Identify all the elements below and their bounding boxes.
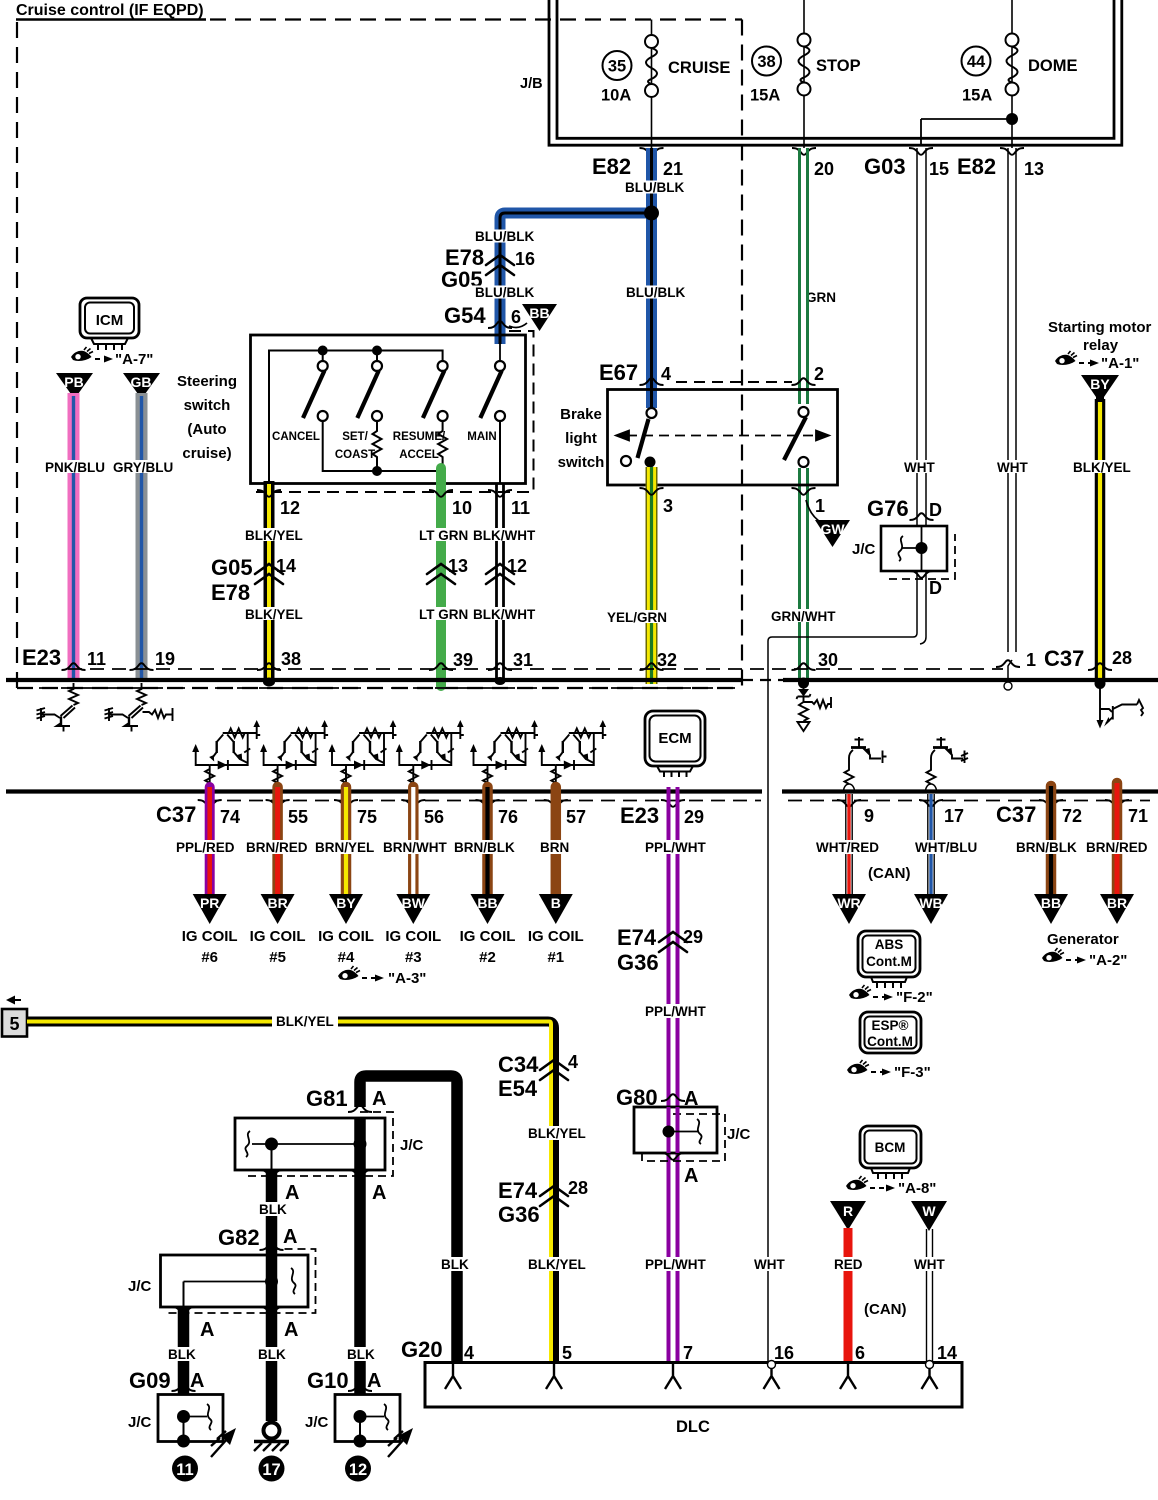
svg-text:#6: #6 (201, 949, 218, 966)
svg-text:BRN/RED: BRN/RED (1086, 840, 1148, 855)
svg-text:J/C: J/C (305, 1414, 329, 1431)
wire labels row2 (242, 607, 302, 620)
label BLK between G81 G82 (256, 1202, 287, 1216)
svg-text:E67: E67 (599, 360, 638, 385)
MAIN switch (495, 361, 505, 371)
section dashed border bottom (17, 687, 742, 689)
pin 72 bump (1039, 800, 1063, 807)
svg-text:WHT: WHT (914, 1257, 945, 1272)
svg-text:G81: G81 (306, 1086, 348, 1111)
RESUME/ACCEL resistor (438, 421, 447, 471)
svg-text:11: 11 (87, 649, 106, 669)
svg-text:J/C: J/C (128, 1278, 152, 1295)
G82 top pin A bump (260, 1243, 284, 1250)
G82 bottom pin A bumps (172, 1307, 196, 1314)
SET/COAST switch (372, 361, 382, 371)
svg-text:BW: BW (402, 895, 426, 911)
svg-text:5: 5 (562, 1343, 572, 1363)
pin 10 bump (429, 490, 453, 497)
G80 wire through box (669, 1107, 678, 1153)
svg-text:BLU/BLK: BLU/BLK (625, 180, 684, 195)
svg-text:"A-2": "A-2" (1089, 952, 1127, 969)
brake switch right arm (784, 417, 806, 460)
label BLU/BLK right branch (623, 286, 683, 299)
svg-text:"F-2": "F-2" (896, 989, 933, 1006)
svg-text:75: 75 (357, 807, 377, 827)
pin 19 bump (130, 663, 154, 670)
connector E74/G36 pin 28 (540, 1186, 568, 1206)
connector G05/E78 pin 14 (255, 564, 283, 584)
pin 31 bump (488, 663, 512, 670)
svg-text:Cruise control (IF EQPD): Cruise control (IF EQPD) (16, 2, 204, 19)
G80 box (634, 1107, 717, 1153)
connector C34/E54 pin 4 (540, 1060, 568, 1080)
svg-text:IG COIL: IG COIL (182, 928, 238, 945)
svg-text:WHT: WHT (904, 460, 935, 475)
terminal BB triangle (471, 894, 505, 924)
svg-text:Steering: Steering (177, 373, 237, 390)
svg-text:CRUISE: CRUISE (668, 59, 730, 77)
svg-text:32: 32 (657, 650, 677, 670)
svg-text:Starting motor: Starting motor (1048, 319, 1151, 336)
wire WHT/BLU CAN pin 17 (928, 794, 934, 897)
svg-text:G82: G82 (218, 1225, 260, 1250)
svg-text:"F-3": "F-3" (894, 1064, 931, 1081)
wire BLK/YEL starting motor relay to C37-28 (1095, 399, 1106, 682)
terminal GW triangle (806, 500, 822, 523)
wire BRN/RED pin 71 (1112, 783, 1123, 896)
svg-text:E78: E78 (211, 580, 250, 605)
connector E74/G36 pin 29 (659, 932, 687, 952)
svg-text:BR: BR (267, 895, 287, 911)
G76 dashed outline (889, 534, 955, 579)
terminal GB triangle (123, 373, 160, 399)
steering switch box (251, 335, 526, 484)
svg-text:RESUME/: RESUME/ (393, 431, 446, 443)
ECM lower connector rail solid (6, 789, 762, 793)
bus junction dots (318, 346, 328, 356)
wire PPL/RED pin 74 (205, 787, 215, 896)
svg-text:21: 21 (663, 159, 683, 179)
svg-text:MAIN: MAIN (467, 431, 496, 443)
svg-text:4: 4 (568, 1052, 578, 1072)
svg-text:D: D (929, 500, 942, 520)
svg-text:#4: #4 (338, 949, 355, 966)
svg-text:ICM: ICM (96, 312, 124, 329)
svg-text:16: 16 (774, 1343, 794, 1363)
svg-text:"A-1": "A-1" (1101, 355, 1139, 372)
wire BRN/BLK pin 76 (482, 787, 493, 896)
wire WHT/RED CAN pin 9 (846, 794, 852, 897)
svg-text:G03: G03 (864, 154, 906, 179)
label BLK G20-4 wire (438, 1257, 469, 1271)
label BLK/YEL vertical (525, 1126, 585, 1140)
ground number 12 (345, 1456, 371, 1482)
svg-text:4: 4 (464, 1343, 474, 1363)
J/B junction block box (double line) (549, 0, 1122, 145)
label PPL/WHT (642, 840, 705, 854)
terminal BW triangle (396, 894, 430, 924)
pin 11 bump (488, 490, 512, 497)
svg-text:6: 6 (511, 307, 521, 327)
svg-text:A: A (284, 1319, 298, 1341)
label PNK/BLU (42, 460, 104, 473)
svg-text:"A-7": "A-7" (115, 351, 153, 368)
connector E67 pin 4 bump (640, 378, 664, 385)
DLC box (425, 1363, 962, 1408)
svg-text:G09: G09 (129, 1368, 171, 1393)
wire WHT pin 14 (double line) (927, 1229, 933, 1362)
svg-text:BRN/WHT: BRN/WHT (383, 840, 447, 855)
svg-text:PPL/WHT: PPL/WHT (645, 840, 706, 855)
pin 71 bump (1105, 800, 1129, 807)
ECM module icon (645, 711, 705, 777)
terminal B triangle (539, 894, 573, 924)
svg-text:38: 38 (757, 53, 775, 71)
wire GRY/BLU (136, 393, 148, 681)
svg-text:A: A (372, 1182, 386, 1204)
CANCEL switch (318, 361, 328, 371)
G10 internal (354, 1410, 367, 1423)
svg-text:BLK: BLK (168, 1347, 196, 1362)
svg-text:3: 3 (663, 496, 673, 516)
eye reference F-3 (847, 1060, 869, 1074)
svg-text:ACCEL: ACCEL (399, 449, 439, 461)
svg-text:C34: C34 (498, 1052, 539, 1077)
svg-text:76: 76 (498, 807, 518, 827)
svg-text:BB: BB (1041, 895, 1061, 911)
brake switch left unused contact (621, 456, 631, 466)
wire PPL/WHT from E23-29 (669, 787, 678, 1362)
svg-text:relay: relay (1083, 337, 1119, 354)
labels WHT/RED WHT/BLU (813, 840, 879, 854)
pin 74 bump (198, 800, 222, 807)
pin 76 bump (476, 800, 500, 807)
wire LT GRN pin 10 (436, 468, 446, 686)
svg-text:BLK/YEL: BLK/YEL (245, 607, 303, 622)
svg-text:GW: GW (820, 521, 845, 537)
svg-text:BLK/YEL: BLK/YEL (1073, 460, 1131, 475)
svg-text:35: 35 (608, 58, 626, 76)
svg-text:39: 39 (453, 650, 473, 670)
circuit number 5 box (2, 1009, 27, 1037)
CAN driver circuit pin 9 (844, 737, 887, 792)
connector G03 pin 15 bump (909, 148, 933, 155)
pin 75 bump (334, 800, 358, 807)
svg-text:G54: G54 (444, 303, 486, 328)
G81 top pin A bump (348, 1105, 372, 1112)
svg-text:BRN/BLK: BRN/BLK (1016, 840, 1077, 855)
eye reference F-2 (849, 985, 871, 999)
svg-text:DOME: DOME (1028, 57, 1078, 75)
svg-text:12: 12 (349, 1461, 367, 1479)
G09 internal (177, 1410, 190, 1423)
terminal PR triangle (193, 894, 227, 924)
svg-text:20: 20 (814, 159, 834, 179)
wire GRN from fuse 38 to brake light switch (800, 148, 808, 682)
svg-text:28: 28 (568, 1178, 588, 1198)
upper rail dashed line (68, 668, 1003, 670)
svg-text:BB: BB (529, 305, 549, 321)
svg-text:16: 16 (515, 249, 535, 269)
pin 1 bump (996, 660, 1020, 667)
svg-text:BB: BB (477, 895, 497, 911)
svg-text:12: 12 (507, 556, 527, 576)
svg-text:15A: 15A (962, 87, 992, 105)
G81 box (235, 1118, 385, 1170)
G80 dashed outline (642, 1114, 725, 1161)
brake light switch box (608, 390, 838, 486)
terminal BY triangle (1081, 375, 1119, 401)
G09 box (158, 1395, 223, 1442)
label BLU/BLK under E82-21 (622, 181, 682, 194)
svg-text:G36: G36 (617, 950, 659, 975)
brake switch right contact top (799, 407, 809, 417)
svg-text:G05: G05 (211, 555, 253, 580)
svg-text:J/C: J/C (400, 1137, 424, 1154)
svg-text:C37: C37 (156, 802, 196, 827)
G76 top pin D bump (910, 513, 934, 520)
E67 dashed connector line (676, 381, 792, 383)
wire PNK/BLU (68, 393, 80, 681)
label YEL/GRN (604, 610, 667, 623)
terminal WR triangle (832, 894, 866, 924)
svg-text:LT GRN: LT GRN (419, 607, 468, 622)
pin 56 bump (401, 800, 425, 807)
terminal WB triangle (914, 894, 948, 924)
fuse 44 DOME wire (1011, 0, 1013, 148)
label WHT left (901, 460, 937, 473)
svg-text:Cont.M: Cont.M (867, 1034, 913, 1049)
svg-text:BRN/RED: BRN/RED (246, 840, 308, 855)
svg-text:light: light (565, 430, 597, 447)
svg-text:CANCEL: CANCEL (272, 431, 320, 443)
svg-text:IG COIL: IG COIL (528, 928, 584, 945)
svg-text:A: A (200, 1319, 214, 1341)
svg-text:BLK: BLK (258, 1347, 286, 1362)
labels BLK row (165, 1347, 196, 1361)
wire BRN pin 57 (551, 787, 562, 896)
connector E82 pin 13 bump (1000, 148, 1024, 155)
IG coil driver circuits x6 (192, 720, 606, 786)
svg-text:ECM: ECM (658, 730, 691, 747)
wire WHT from E82-13 to C37-1 (double line) (1008, 148, 1016, 678)
G81 dashed outline (243, 1112, 393, 1176)
svg-text:74: 74 (220, 807, 240, 827)
svg-text:1: 1 (815, 496, 825, 516)
terminal PB triangle (56, 373, 93, 399)
fuse 44 DOME (1006, 34, 1019, 96)
svg-text:ABS: ABS (875, 937, 904, 952)
labels above DLC (525, 1257, 585, 1271)
svg-text:10A: 10A (601, 87, 631, 105)
svg-text:BY: BY (336, 895, 356, 911)
svg-text:5: 5 (9, 1014, 19, 1034)
svg-text:IG COIL: IG COIL (250, 928, 306, 945)
CAN driver circuit pin 17 (926, 737, 969, 792)
brake switch left arm (638, 419, 649, 458)
svg-text:15: 15 (929, 159, 949, 179)
svg-text:19: 19 (155, 649, 175, 669)
ESP Cont.M module icon (860, 1012, 921, 1053)
G80 top pin A bump (661, 1094, 685, 1101)
wire BLK/YEL pin 12 (264, 481, 275, 681)
svg-text:"A-3": "A-3" (388, 970, 426, 987)
svg-text:Brake: Brake (560, 406, 602, 423)
junction dot on DOME wire (1006, 113, 1018, 125)
svg-text:WHT/RED: WHT/RED (816, 840, 879, 855)
svg-text:11: 11 (176, 1461, 193, 1479)
svg-text:31: 31 (513, 650, 533, 670)
pin 31 cap (495, 677, 506, 685)
connector G54 pin 6 bump (488, 321, 512, 328)
terminal BR triangle (261, 894, 295, 924)
svg-text:J/C: J/C (727, 1126, 751, 1143)
svg-text:BY: BY (1090, 376, 1110, 392)
svg-text:WHT/BLU: WHT/BLU (915, 840, 977, 855)
connector E67 pin 2 bump (792, 378, 816, 385)
G81 bottom pin A bumps (260, 1170, 284, 1177)
svg-text:BLK/YEL: BLK/YEL (245, 528, 303, 543)
pin 30 bump (792, 663, 816, 670)
svg-text:C37: C37 (996, 802, 1036, 827)
svg-text:#5: #5 (269, 949, 286, 966)
svg-text:E23: E23 (620, 803, 659, 828)
brake switch gang dashed arrow (616, 431, 829, 441)
svg-text:38: 38 (281, 649, 301, 669)
wire end loop under rail at C37-1 (1004, 682, 1012, 690)
wire color labels (173, 840, 235, 854)
svg-text:BLK: BLK (259, 1202, 287, 1217)
DLC pin 14 loop (926, 1361, 934, 1369)
svg-text:DLC: DLC (676, 1418, 710, 1436)
DLC pin 16 loop (768, 1361, 776, 1369)
svg-text:PR: PR (200, 895, 219, 911)
svg-text:BLU/BLK: BLU/BLK (475, 285, 534, 300)
terminal BB triangle at G54 (509, 323, 527, 327)
eye reference A-8 (846, 1176, 868, 1190)
fuse 35 CRUISE (645, 35, 658, 97)
eye reference A-1 (1055, 351, 1077, 365)
svg-text:72: 72 (1062, 806, 1082, 826)
svg-text:15A: 15A (750, 87, 780, 105)
ECM circuit pin 30 (zener + resistors) (797, 686, 832, 731)
svg-text:switch: switch (184, 397, 231, 414)
upper rail lower dashed (17, 687, 742, 689)
svg-text:A: A (367, 1370, 381, 1392)
G81 internal line dots and hook (252, 1143, 360, 1145)
svg-text:WB: WB (919, 895, 942, 911)
pin 28 bump (1088, 663, 1112, 670)
pin 30 junction dot (798, 678, 809, 689)
svg-text:cruise): cruise) (182, 445, 231, 462)
wire from DOME to G03 with junction (921, 118, 1012, 120)
MAIN to pin 11 (499, 421, 501, 483)
wire BLK/WHT pin 11 (497, 483, 504, 680)
title underline (16, 18, 206, 20)
DLC pin forks (445, 1364, 461, 1389)
BCM module icon (860, 1126, 921, 1179)
G82 internal line dots and hook (184, 1281, 272, 1283)
ECM transistor circuit pin 11 (37, 683, 79, 732)
svg-text:PPL/WHT: PPL/WHT (645, 1004, 706, 1019)
label BLK/YEL (1070, 460, 1130, 473)
section dashed border left (16, 22, 18, 688)
svg-text:BRN/BLK: BRN/BLK (454, 840, 515, 855)
svg-text:BLK/WHT: BLK/WHT (473, 528, 536, 543)
G80 internal dot and hook (663, 1126, 675, 1138)
pin 11 bump (62, 663, 86, 670)
G76 internal dot and hook (921, 526, 923, 571)
svg-text:D: D (929, 578, 942, 598)
svg-text:71: 71 (1128, 806, 1148, 826)
section dashed border top (210, 18, 742, 20)
svg-text:14: 14 (937, 1343, 957, 1363)
svg-text:WR: WR (837, 895, 860, 911)
svg-text:J/C: J/C (852, 541, 876, 558)
G09 chassis ground (211, 1431, 228, 1457)
svg-text:BLU/BLK: BLU/BLK (475, 229, 534, 244)
svg-text:2: 2 (814, 364, 824, 384)
G81 wire through box (354, 1118, 366, 1170)
svg-text:IG COIL: IG COIL (385, 928, 441, 945)
pin 57 bump (544, 800, 568, 807)
svg-text:PNK/BLU: PNK/BLU (45, 460, 105, 475)
svg-text:7: 7 (683, 1343, 693, 1363)
G10 box (335, 1395, 400, 1442)
svg-text:56: 56 (424, 807, 444, 827)
svg-text:44: 44 (967, 53, 986, 71)
wire WHT from G03-15 to G76 (double line) (768, 148, 926, 1362)
svg-text:(Auto: (Auto (187, 421, 226, 438)
svg-text:PPL/RED: PPL/RED (176, 840, 235, 855)
SET/COAST resistor (373, 421, 382, 471)
svg-text:GRN/WHT: GRN/WHT (771, 609, 836, 624)
eye reference A-3 (338, 966, 360, 980)
svg-text:WHT: WHT (754, 1257, 785, 1272)
svg-text:9: 9 (864, 806, 874, 826)
brake switch left bottom junction dot (645, 457, 656, 468)
internal top bus (269, 351, 443, 484)
svg-text:R: R (843, 1203, 853, 1219)
pin 29 bump (661, 800, 685, 807)
internal bottom bus (323, 421, 443, 471)
svg-text:J/B: J/B (520, 76, 543, 92)
wire labels row1 (242, 528, 302, 541)
ground ring 17 (264, 1423, 280, 1439)
label GRN/WHT (768, 609, 834, 622)
svg-text:12: 12 (280, 498, 300, 518)
ECM upper connector rail solid (6, 678, 742, 682)
svg-text:Generator: Generator (1047, 931, 1119, 948)
pin 38 bump (257, 663, 281, 670)
G82 wire through box (266, 1255, 278, 1307)
pin 12 bump (257, 490, 281, 497)
pin 38 cap (263, 678, 275, 687)
junction dot blue wire (644, 206, 659, 221)
labels BRN/BLK BRN/RED (1013, 840, 1076, 854)
svg-text:WHT: WHT (997, 460, 1028, 475)
svg-text:A: A (372, 1088, 386, 1110)
wire YEL/GRN from brake switch pin 3 (646, 467, 658, 684)
wire BLU/BLK from E82-21 (500, 148, 652, 408)
svg-text:17: 17 (262, 1461, 280, 1479)
pin 32 bump (640, 663, 664, 670)
svg-text:E23: E23 (22, 645, 61, 670)
svg-text:G76: G76 (867, 496, 909, 521)
fuse 38 STOP wire (803, 0, 805, 148)
svg-text:10: 10 (452, 498, 472, 518)
